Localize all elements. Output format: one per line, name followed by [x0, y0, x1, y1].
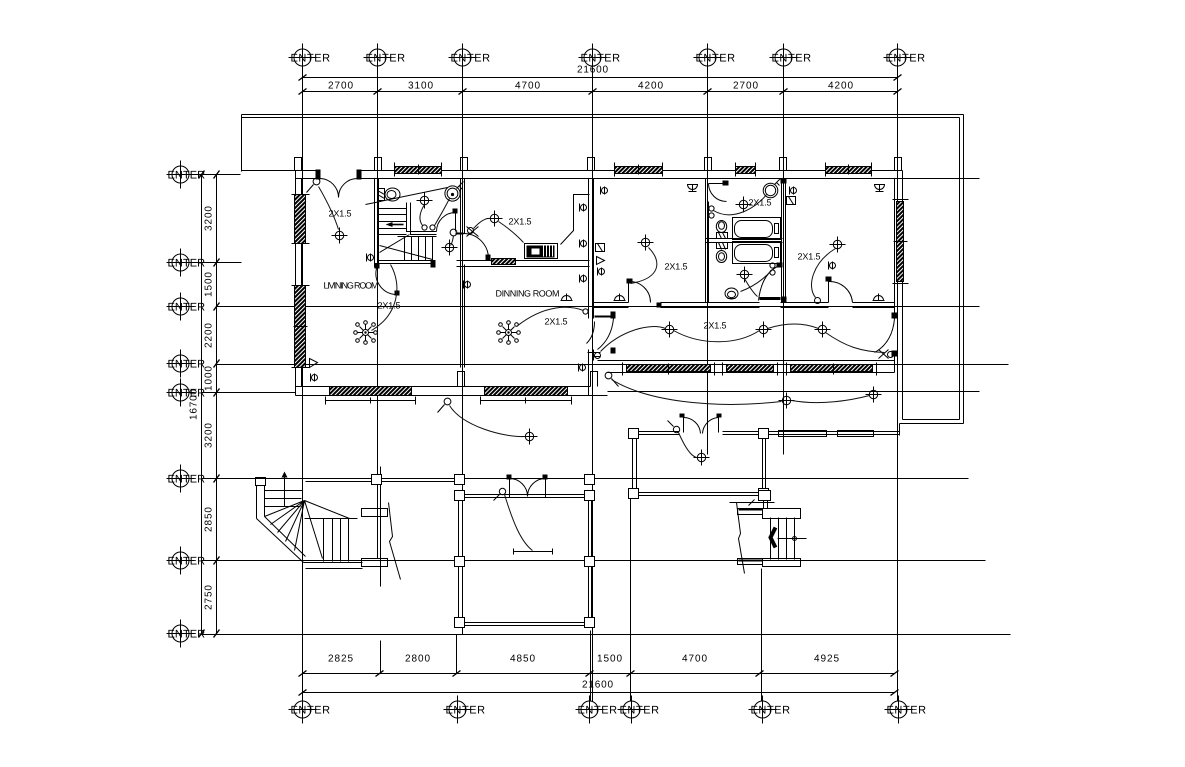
north wall parapet posts	[295, 158, 902, 171]
grid bubble bottom A	[289, 696, 331, 724]
porch right double door	[680, 414, 722, 434]
svg-text:1000: 1000	[204, 366, 215, 391]
kitchen counter and sink	[525, 244, 558, 259]
light WC	[417, 193, 433, 209]
bathtub 1	[733, 218, 781, 240]
svg-text:2200: 2200	[204, 323, 215, 348]
window CS3	[787, 363, 877, 376]
left exterior stair break line	[389, 503, 401, 580]
socket group bedroom2	[787, 187, 797, 205]
light corridor 3	[815, 322, 831, 338]
svg-text:4200: 4200	[828, 81, 853, 92]
wall light bedroom2	[875, 185, 885, 192]
serving area door	[456, 234, 491, 261]
kitchen counter edge	[561, 195, 590, 245]
svg-text:2700: 2700	[328, 81, 353, 92]
wire hall to living fan	[372, 265, 397, 331]
grid row line y=306	[217, 306, 980, 308]
junction dot serving	[450, 229, 457, 236]
svg-text:LIVINING ROOM: LIVINING ROOM	[324, 281, 379, 291]
junction dots bathroom2	[770, 263, 775, 275]
grid bubble bottom B	[444, 696, 486, 724]
svg-text:2825: 2825	[328, 654, 353, 665]
grid bubble bottom E	[749, 696, 791, 724]
grid bubble top F	[770, 44, 812, 72]
svg-text:ENTER: ENTER	[886, 53, 926, 65]
svg-text:ENTER: ENTER	[887, 705, 927, 717]
living room north double door	[316, 170, 362, 198]
round basin bath1	[763, 179, 780, 198]
grid row line y=633	[202, 634, 1011, 636]
interior stair up arrow	[386, 222, 404, 227]
wire bedroom2 light to door	[812, 249, 836, 298]
top chain dimension line	[303, 91, 898, 93]
switch cross corridor east	[879, 350, 894, 359]
grid line vertical E x=707	[707, 72, 709, 455]
interior stair break line	[366, 188, 448, 205]
light bedroom1	[638, 235, 654, 251]
wire dining fan to corner	[517, 307, 584, 326]
switch symbol bedroom1 nw	[601, 187, 608, 195]
grid bubble bottom F	[885, 696, 927, 724]
left exterior stair side blocks	[362, 467, 388, 587]
left exterior stair fan treads	[265, 501, 350, 559]
right exterior stair	[730, 491, 807, 574]
grid bubble left 1	[167, 161, 206, 189]
switch cross hall	[467, 227, 479, 237]
wire porch left	[505, 495, 533, 551]
east exterior wall	[902, 171, 904, 420]
svg-text:4925: 4925	[814, 654, 839, 665]
south exterior wall west part	[296, 395, 608, 397]
light corridor 1	[662, 322, 678, 338]
left exterior stair lower flight	[305, 519, 358, 562]
interior stair diagonals	[380, 235, 433, 260]
svg-text:4700: 4700	[682, 654, 707, 665]
light bedroom2	[830, 237, 846, 253]
svg-text:ENTER: ENTER	[620, 705, 660, 717]
window W2	[292, 286, 310, 368]
switch symbol dining SE	[579, 364, 586, 372]
window N2	[615, 163, 663, 177]
grid row line y=262	[190, 262, 242, 264]
junction dot bedroom2	[815, 298, 821, 304]
light terrace 2	[866, 387, 882, 403]
left exterior stair top treads	[265, 472, 303, 507]
svg-text:2X1.5: 2X1.5	[749, 198, 772, 208]
svg-text:DINNING ROOM: DINNING ROOM	[496, 289, 560, 299]
grid line vertical G x=897	[897, 72, 899, 702]
wire corridor mid2	[768, 324, 819, 329]
window N3	[736, 163, 756, 177]
svg-text:3200: 3200	[204, 206, 215, 231]
window S1	[326, 387, 416, 405]
svg-text:ENTER: ENTER	[168, 302, 206, 314]
wire dots to basin	[435, 199, 450, 226]
grid bubble top E	[694, 44, 736, 72]
grid row line y=392 left	[202, 392, 296, 394]
wire to porch light	[450, 406, 525, 437]
grid line vertical F x=783	[783, 72, 785, 455]
svg-text:ENTER: ENTER	[578, 705, 618, 717]
svg-text:ENTER: ENTER	[168, 359, 206, 371]
ceiling fan dining room	[497, 321, 521, 345]
grid row line y=478	[202, 478, 969, 480]
grid bubble top D	[579, 44, 621, 72]
grid bubble left 3	[167, 293, 206, 321]
WC door	[437, 209, 458, 232]
bath-bed2 wall cap	[781, 179, 787, 184]
light bathroom1	[736, 197, 752, 213]
serving wall	[457, 260, 590, 262]
svg-text:3200: 3200	[204, 423, 215, 448]
pendant point living	[307, 178, 320, 192]
junction dot dining fan	[583, 309, 588, 314]
terrace rail right of porch	[769, 424, 900, 437]
svg-text:2800: 2800	[405, 654, 430, 665]
grid line vertical D x=592	[592, 72, 594, 702]
porch left double door	[507, 475, 548, 498]
svg-text:ENTER: ENTER	[291, 53, 331, 65]
light bathroom2	[737, 267, 753, 283]
light living room	[332, 228, 348, 244]
grid row line y=560	[202, 560, 986, 562]
light kitchen A	[487, 211, 503, 227]
bedroom2 door	[826, 277, 853, 303]
switch symbol living west A	[310, 359, 318, 368]
ceiling fan living room	[354, 321, 378, 345]
svg-text:ENTER: ENTER	[581, 53, 621, 65]
socket group bedroom1	[596, 244, 605, 276]
bathroom1 door	[709, 181, 729, 202]
svg-text:2X1.5: 2X1.5	[798, 252, 821, 262]
svg-text:2X1.5: 2X1.5	[704, 321, 727, 331]
hall south door	[375, 264, 400, 296]
bedroom2 SW post	[782, 297, 787, 303]
wire serving dot to stair light	[451, 236, 454, 246]
wire switch to kitchen light	[474, 218, 491, 228]
svg-text:ENTER: ENTER	[696, 53, 736, 65]
bottom overall dimension line 21600	[303, 692, 895, 694]
porch left step mark	[514, 549, 553, 555]
bathroom east wall	[781, 179, 783, 303]
svg-text:ENTER: ENTER	[168, 170, 206, 182]
window CS1	[623, 363, 715, 376]
grid line vertical C x=462	[462, 72, 464, 635]
svg-text:2X1.5: 2X1.5	[545, 317, 568, 327]
window S2	[481, 387, 572, 405]
svg-text:ENTER: ENTER	[168, 629, 206, 641]
bedroom1 door	[627, 279, 662, 308]
grid bubble left 4	[167, 350, 206, 378]
pendant point outdoor	[605, 372, 618, 386]
svg-text:ENTER: ENTER	[751, 705, 791, 717]
svg-text:2X1.5: 2X1.5	[509, 217, 532, 227]
junction dots WC	[422, 225, 435, 230]
left overall dimension line 16700	[201, 175, 203, 634]
south wall notch at grid C	[458, 372, 465, 387]
grid line vertical A x=302	[302, 72, 304, 702]
grid stub x=761	[761, 569, 763, 702]
wall light bedroom1	[688, 185, 698, 192]
grid bubble left 2	[167, 249, 206, 277]
wire bedroom1 door to light	[631, 248, 657, 284]
switch symbol living west B	[311, 374, 318, 382]
svg-text:3100: 3100	[408, 81, 433, 92]
switch symbol kitchen wall A	[580, 204, 587, 212]
grid stub x=456 bottom	[456, 635, 458, 674]
stair hall south wall	[375, 263, 436, 265]
grid bubble top G	[884, 44, 926, 72]
grid bubble left 6	[167, 465, 206, 493]
corridor east door	[875, 313, 898, 357]
window CS2	[723, 363, 778, 376]
grid stub x=379 bottom	[380, 641, 382, 674]
svg-text:2850: 2850	[204, 507, 215, 532]
left exterior stair landing	[256, 478, 363, 569]
bathroom split wall	[706, 238, 783, 240]
wire living pendant to light	[319, 187, 339, 230]
left chain dimension line	[216, 175, 218, 634]
wire corridor to east switch	[826, 333, 885, 353]
svg-text:2X1.5: 2X1.5	[378, 301, 401, 311]
interior stair lower treads	[398, 237, 437, 261]
wire corridor west	[601, 327, 666, 352]
svg-text:ENTER: ENTER	[168, 258, 206, 270]
wire bathroom2 to basin	[741, 271, 772, 297]
wire porch right	[679, 433, 697, 458]
north exterior wall	[242, 170, 316, 172]
svg-text:2750: 2750	[204, 585, 215, 610]
top overall dimension line 21600	[303, 77, 898, 79]
svg-text:ENTER: ENTER	[772, 53, 812, 65]
light porch right	[694, 450, 710, 466]
grid bubble left 7	[167, 547, 206, 575]
wire WC light to dots	[420, 205, 425, 226]
svg-text:ENTER: ENTER	[168, 556, 206, 568]
grid bubble top C	[449, 44, 491, 72]
svg-text:2X1.5: 2X1.5	[665, 262, 688, 272]
pendant point south wall	[438, 398, 451, 412]
terrace outline right edge	[963, 115, 965, 424]
toilet bath1	[716, 221, 727, 239]
terrace outline top edge	[242, 114, 964, 116]
bathroom west wall	[705, 179, 707, 303]
wire kitchen light to sink	[499, 222, 524, 243]
svg-text:2X1.5: 2X1.5	[329, 209, 352, 219]
svg-text:4200: 4200	[638, 81, 663, 92]
serving hatch bar	[492, 259, 516, 265]
svg-text:ENTER: ENTER	[168, 474, 206, 486]
dining to corridor door	[587, 312, 616, 359]
pedestal basin bath2	[725, 288, 738, 299]
switch symbol kitchen wall B	[580, 240, 587, 248]
stair hall west wall	[374, 179, 376, 268]
living east wall	[460, 179, 462, 234]
walkway to porch	[306, 475, 458, 485]
svg-text:1500: 1500	[597, 654, 622, 665]
light porch wire	[522, 429, 538, 445]
window E1	[893, 200, 909, 284]
switch symbol hall	[367, 254, 374, 262]
kitchen-dining east wall	[588, 179, 590, 319]
wall light low bedroom1	[614, 294, 626, 301]
svg-text:4850: 4850	[510, 654, 535, 665]
bathtub 2	[733, 242, 781, 264]
wall light low bedroom2	[873, 294, 885, 301]
svg-text:1500: 1500	[204, 272, 215, 297]
grid bubble top B	[364, 44, 406, 72]
porch right frame	[629, 429, 769, 499]
switch symbol dining east A	[580, 275, 587, 283]
svg-text:ENTER: ENTER	[446, 705, 486, 717]
light corridor 2	[756, 322, 772, 338]
svg-text:16700: 16700	[189, 389, 200, 420]
grid bubble bottom D	[618, 696, 660, 724]
junction dots bathroom1	[709, 206, 714, 218]
bathroom2 door	[759, 263, 783, 301]
grid bubble left 8	[167, 620, 206, 648]
svg-text:ENTER: ENTER	[451, 53, 491, 65]
window N4	[826, 163, 872, 177]
svg-text:ENTER: ENTER	[168, 388, 206, 400]
west exterior wall	[295, 171, 297, 396]
grid stub x=630	[630, 498, 632, 702]
grid bubble bottom C	[576, 696, 618, 724]
wire corridor mid1	[674, 331, 760, 342]
svg-text:4700: 4700	[515, 81, 540, 92]
toilet bath2	[716, 243, 727, 263]
pendant point porch left	[494, 488, 506, 500]
wall light low corridor	[561, 294, 573, 301]
south wall notch small center	[591, 372, 598, 387]
grid line vertical B x=377	[377, 72, 379, 559]
svg-text:ENTER: ENTER	[366, 53, 406, 65]
stair hall south wall end post	[431, 261, 436, 268]
switch symbol living east	[464, 281, 471, 289]
window W1	[292, 195, 310, 244]
bottom chain dimension line	[303, 673, 895, 675]
porch left frame	[455, 475, 595, 628]
terrace outline bottom-right edge	[903, 419, 960, 421]
dining SE wall jog	[588, 353, 601, 357]
bedrooms bottom wall	[594, 302, 629, 304]
grid row sill line y=391 right	[608, 391, 980, 393]
light terrace 1	[779, 393, 795, 409]
stairwell L-wall	[407, 203, 437, 232]
grid row line y=363	[217, 364, 1009, 366]
grid bubble left 5	[167, 379, 206, 407]
corridor south wall	[598, 360, 895, 362]
window N1	[395, 163, 442, 177]
wire outdoor terrace run	[612, 380, 870, 405]
switch symbol corridor right wall	[829, 262, 836, 270]
hall WC toilet	[378, 188, 401, 201]
terrace outline left edge	[241, 115, 243, 172]
grid bubble top A	[289, 44, 331, 72]
light stair hall	[442, 240, 458, 256]
grid stub x=589 bottom	[590, 631, 592, 702]
pendant point porch right	[668, 421, 680, 433]
svg-text:2700: 2700	[733, 81, 758, 92]
svg-text:21600: 21600	[582, 680, 613, 691]
interior stair upper treads	[379, 209, 407, 235]
grid row line y=174	[190, 174, 241, 176]
wire bathroom1 run	[714, 195, 767, 215]
svg-text:ENTER: ENTER	[291, 705, 331, 717]
hall WC round basin	[445, 182, 464, 202]
